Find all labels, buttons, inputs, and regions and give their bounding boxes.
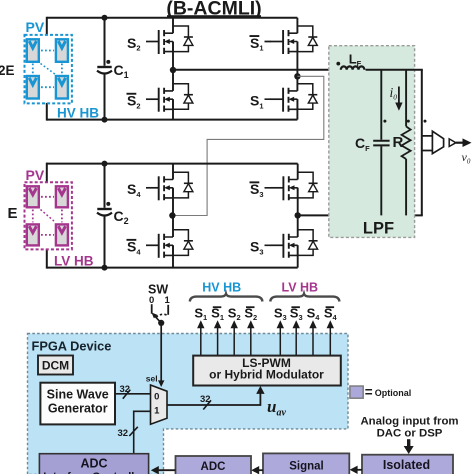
PV array 2 (magenta, LV) bbox=[25, 182, 72, 249]
wire gate stubs right leg HV bbox=[265, 42, 272, 100]
svg-text:S4: S4 bbox=[127, 181, 141, 199]
svg-text:FPGA Device: FPGA Device bbox=[32, 339, 112, 354]
wire gate stubs right leg LV bbox=[265, 188, 272, 246]
node dots row bbox=[383, 120, 386, 123]
wires gate outputs with up arrowheads bbox=[201, 327, 330, 356]
wire series link (thin) HV right mid to LV left mid bbox=[172, 76, 323, 215]
arrow Signal to ADC bbox=[258, 469, 263, 471]
svg-text:C1: C1 bbox=[114, 62, 129, 80]
svg-text:S4: S4 bbox=[127, 239, 141, 257]
transistor S3 bbox=[271, 230, 318, 258]
Isolated box bbox=[362, 455, 453, 474]
wire LV left leg bbox=[172, 164, 174, 268]
svg-text:Isolated: Isolated bbox=[383, 458, 430, 472]
svg-text:S3: S3 bbox=[250, 239, 264, 257]
svg-text:1: 1 bbox=[154, 405, 160, 416]
svg-text:sel: sel bbox=[146, 373, 158, 383]
gate signal labels and arrows bbox=[194, 305, 337, 322]
svg-text:LPF: LPF bbox=[363, 220, 394, 238]
ADC Interface Controller box bbox=[39, 454, 148, 474]
svg-text:R: R bbox=[393, 134, 404, 151]
wire top rail LV bbox=[47, 163, 298, 165]
legend optional square bbox=[350, 386, 363, 398]
svg-text:Sine Wave: Sine Wave bbox=[47, 388, 109, 402]
current i0 arrow bbox=[395, 87, 402, 111]
svg-text:=: = bbox=[365, 385, 373, 400]
transistor S3bar bbox=[271, 172, 318, 200]
svg-text:S1: S1 bbox=[250, 93, 264, 111]
mux bbox=[151, 385, 168, 424]
node C2 top bbox=[102, 161, 108, 167]
brace HV bbox=[190, 294, 263, 302]
node LV left midpoint bbox=[169, 212, 175, 218]
node LV right midpoint bbox=[295, 212, 301, 218]
svg-text:PV: PV bbox=[26, 19, 45, 35]
svg-text:S1: S1 bbox=[194, 305, 207, 322]
node C2 bottom bbox=[102, 265, 108, 271]
voltage sensor bbox=[422, 131, 444, 153]
brace LV bbox=[270, 294, 339, 302]
capacitor C1 bbox=[97, 18, 112, 120]
arrow ADC to ADC-IF bbox=[158, 469, 176, 471]
wire HV right leg bbox=[296, 18, 298, 120]
svg-text:HV HB: HV HB bbox=[57, 105, 99, 120]
arrow Isolated to Signal bbox=[356, 469, 362, 471]
svg-text:32: 32 bbox=[200, 394, 211, 405]
wire bottom rail HV bbox=[47, 119, 298, 121]
wire ADC to mux input 1 bbox=[134, 411, 151, 453]
svg-text:or Hybrid Modulator: or Hybrid Modulator bbox=[209, 368, 324, 382]
LS-PWM modulator box bbox=[193, 356, 341, 386]
svg-text:2E: 2E bbox=[0, 63, 15, 78]
wire top rail HV bbox=[47, 17, 298, 19]
svg-text:DCM: DCM bbox=[42, 359, 69, 373]
svg-text:HV HB: HV HB bbox=[202, 281, 241, 295]
capacitor C2 bbox=[97, 164, 112, 268]
svg-text:1: 1 bbox=[165, 295, 171, 306]
transistor S1bar bbox=[270, 26, 317, 54]
DCM box bbox=[38, 356, 73, 375]
svg-text:S2: S2 bbox=[127, 93, 141, 111]
transistor S2 bbox=[146, 26, 193, 54]
svg-text:Optional: Optional bbox=[375, 388, 412, 398]
svg-text:S2: S2 bbox=[228, 305, 241, 322]
wire PV1 top stub bbox=[46, 17, 48, 36]
Signal box bbox=[263, 453, 349, 474]
svg-text:PV: PV bbox=[26, 167, 45, 183]
node HV left midpoint bbox=[170, 67, 176, 73]
ADC box bbox=[176, 456, 252, 474]
wire PV2 bottom stub bbox=[46, 249, 48, 269]
switch SW bbox=[148, 282, 171, 326]
node HV right midpoint bbox=[294, 73, 300, 79]
transistor S4bar bbox=[146, 230, 193, 258]
wire mux out to modulator bbox=[167, 393, 260, 406]
PV array 1 (blue, HV) bbox=[25, 35, 72, 104]
FPGA box bbox=[28, 334, 349, 474]
svg-text:v0: v0 bbox=[462, 150, 471, 166]
transistor S2bar bbox=[146, 84, 193, 112]
LPF box bbox=[329, 46, 415, 238]
svg-text:C2: C2 bbox=[114, 208, 129, 226]
Sine Wave Generator box bbox=[40, 383, 115, 425]
svg-text:S3: S3 bbox=[250, 181, 264, 199]
svg-text:DAC or DSP: DAC or DSP bbox=[377, 427, 443, 439]
svg-text:32: 32 bbox=[120, 384, 131, 395]
svg-text:E: E bbox=[8, 205, 18, 222]
output arrow v0 bbox=[456, 138, 472, 147]
wire SW to mux sel bbox=[160, 323, 162, 382]
svg-text:S4: S4 bbox=[307, 305, 321, 322]
arrow analog input down bbox=[407, 439, 410, 447]
transistor S4 bbox=[146, 172, 193, 200]
capacitor Cf bbox=[373, 70, 389, 216]
svg-text:Generator: Generator bbox=[48, 402, 108, 416]
svg-text:S1: S1 bbox=[250, 35, 264, 53]
wire LV output to LPF return bbox=[298, 214, 423, 216]
buffer amp bbox=[449, 139, 456, 147]
inductor Lf bbox=[336, 62, 364, 70]
wire LPF right vertical bbox=[421, 70, 423, 216]
svg-text:ADC: ADC bbox=[201, 461, 226, 473]
wire PV1 bottom stub bbox=[46, 103, 48, 121]
wire bottom rail LV bbox=[47, 267, 298, 269]
node C1 bottom bbox=[102, 117, 108, 123]
wire PV2 top stub bbox=[46, 163, 48, 183]
svg-text:ADC: ADC bbox=[80, 456, 107, 470]
wire LV right leg bbox=[297, 164, 299, 268]
svg-text:S3: S3 bbox=[274, 305, 287, 322]
wire HV left leg bbox=[172, 18, 174, 120]
transistor S1 bbox=[270, 84, 317, 112]
node C1 top bbox=[102, 15, 108, 21]
svg-text:LV HB: LV HB bbox=[54, 254, 94, 269]
svg-text:Analog input from: Analog input from bbox=[360, 416, 458, 428]
svg-text:32: 32 bbox=[118, 428, 129, 439]
svg-text:LV HB: LV HB bbox=[282, 281, 319, 295]
resistor R bbox=[402, 70, 411, 216]
wire after Lf bbox=[366, 69, 423, 71]
svg-text:Signal: Signal bbox=[289, 460, 324, 472]
svg-text:0: 0 bbox=[154, 391, 159, 402]
svg-text:S2: S2 bbox=[127, 35, 141, 53]
wire HV output to LPF bbox=[173, 69, 340, 71]
wire gen to mux input 0 bbox=[115, 393, 151, 395]
